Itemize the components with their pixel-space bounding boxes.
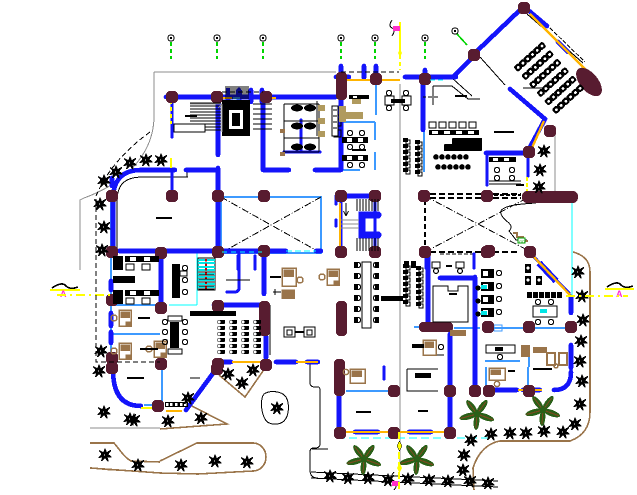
stage bar [190, 311, 236, 316]
column [523, 385, 535, 397]
column [370, 73, 382, 85]
lift core [222, 100, 250, 136]
column [444, 427, 456, 439]
grid marker [168, 35, 174, 41]
wall diag NE2 [558, 42, 568, 52]
wall x423 [421, 79, 426, 130]
column [481, 190, 493, 202]
column [166, 190, 178, 202]
column [152, 400, 164, 412]
classroom desks [429, 122, 482, 170]
column [155, 358, 167, 370]
column [482, 321, 494, 333]
wash basins [334, 108, 341, 137]
label dash wing [127, 377, 144, 379]
pier bar mid [259, 301, 270, 336]
column [418, 190, 430, 202]
column [544, 125, 556, 137]
door bar [226, 90, 231, 102]
tan desk [111, 310, 131, 326]
NE thin line [527, 14, 583, 63]
column [483, 385, 495, 397]
pier bar S [334, 359, 345, 396]
tan desk [319, 269, 339, 285]
walls S rooms [337, 396, 342, 428]
desk col E [481, 269, 502, 317]
column [212, 300, 224, 312]
wall y432 segs [355, 430, 431, 435]
shelf [403, 138, 410, 174]
orange diag NE2 [531, 121, 544, 150]
courtyard west diagonal 2 [221, 197, 321, 253]
wall y77 [336, 75, 456, 80]
desk S1 [343, 369, 365, 383]
column [469, 385, 481, 397]
walk E curve [473, 252, 590, 490]
desk SE [486, 345, 515, 353]
level marker E [566, 283, 634, 299]
column [258, 245, 270, 257]
toilet walls [284, 120, 320, 152]
partition [111, 333, 160, 335]
wall SE arc [495, 372, 571, 390]
partition wall mid2 [262, 253, 267, 294]
wall y278 [440, 276, 474, 281]
label dash [185, 115, 197, 117]
grid marker diag [452, 28, 458, 34]
column [523, 146, 535, 158]
tree row band S [311, 472, 498, 487]
door bar N [362, 66, 367, 78]
big beam E [522, 191, 578, 203]
column [481, 246, 493, 258]
wall x218 [216, 97, 221, 253]
cyan partition [196, 252, 198, 305]
orange y432 [346, 431, 449, 433]
column [166, 91, 178, 103]
tan desk [111, 343, 131, 359]
column [211, 91, 223, 103]
stub NW [110, 178, 115, 186]
walk V [219, 371, 263, 397]
tan bits E [450, 330, 466, 336]
courtyard east diagonal [425, 196, 531, 252]
room E outline [433, 286, 468, 322]
thin partition [226, 279, 250, 281]
desks N2 [342, 130, 368, 167]
wc pair [291, 123, 303, 130]
grid marker [260, 35, 266, 41]
wall x475 [473, 277, 478, 389]
section line bottom [392, 432, 403, 490]
column [335, 246, 347, 258]
cyan E [571, 203, 573, 295]
L room S [407, 369, 438, 391]
svg-text:GD: GD [519, 239, 525, 244]
courtyard west diagonal [221, 197, 321, 253]
beam E room [419, 322, 453, 332]
NE wing seats [513, 41, 584, 114]
wall x266 low [264, 336, 269, 358]
small desks E [432, 262, 464, 273]
dash E room [440, 253, 474, 255]
small dash [190, 377, 200, 379]
door bar N [374, 66, 379, 78]
column [212, 246, 224, 258]
partition N [423, 130, 425, 172]
NE wing inner lines [452, 57, 505, 96]
centre site line [399, 84, 401, 462]
cyan partition [169, 304, 197, 306]
stair block sides [341, 199, 375, 250]
tan L-desk [339, 96, 363, 122]
curved SW wall [113, 370, 141, 406]
orange diag E [532, 255, 570, 295]
column [260, 359, 272, 371]
armchairs [316, 101, 318, 136]
column [524, 246, 536, 258]
wall x263 [263, 97, 321, 170]
tan chairs SE [547, 353, 567, 368]
orange tick [222, 97, 232, 99]
column [106, 352, 118, 364]
column [565, 321, 577, 333]
yellow SW [141, 407, 157, 409]
level marker W [50, 284, 111, 299]
wall y170 mid [320, 168, 341, 173]
partition SE [346, 390, 388, 392]
column [335, 190, 347, 202]
partition [111, 304, 160, 306]
door stubs y252 [238, 256, 255, 269]
courtyard west [221, 197, 321, 253]
wall diag E fat [539, 263, 556, 281]
door bar N2 [423, 70, 428, 78]
column [518, 2, 530, 14]
lockers [284, 327, 315, 337]
dashed y72 [341, 71, 399, 73]
office desks N [385, 90, 411, 110]
door stubs courtyard E [426, 254, 474, 268]
courtyard east left dash [424, 200, 426, 248]
label dash hall [156, 217, 172, 219]
arrow dn [344, 203, 349, 216]
west wall segs [111, 215, 113, 343]
wall left stub [171, 100, 174, 192]
partition N [342, 121, 375, 123]
tan desk S2 [423, 340, 436, 355]
stair block top [337, 194, 379, 199]
long table [354, 262, 379, 328]
dash courtyard-bar [494, 194, 521, 196]
inner outline NW hall [117, 177, 188, 248]
wall y170 W [186, 168, 216, 173]
column [106, 362, 118, 374]
column [260, 91, 272, 103]
column [211, 363, 223, 375]
NE dashes [550, 28, 585, 62]
column [155, 302, 167, 314]
wall diag NW [477, 10, 520, 51]
comb row [527, 292, 562, 298]
site boundary top [154, 71, 336, 73]
column [106, 246, 118, 258]
wc pair [291, 105, 303, 112]
wc pair [291, 144, 303, 151]
grid marker [338, 35, 344, 41]
trees [98, 175, 110, 187]
outline S wing [310, 362, 320, 478]
column [388, 427, 400, 439]
site boundary NW curve [80, 72, 154, 270]
wall y251 [119, 249, 321, 254]
grid marker [422, 35, 428, 41]
yellow dash x171 [170, 100, 172, 124]
wall x450 [448, 334, 453, 428]
walk rounded SW [160, 443, 266, 474]
NE wing S walls [510, 89, 545, 149]
wall x161 [159, 253, 164, 305]
orange stair side [339, 203, 341, 250]
lb tick [233, 97, 240, 100]
orange diag NE [530, 14, 588, 72]
cyan S [337, 396, 339, 438]
gray arrows [190, 104, 222, 132]
west wall line [110, 196, 112, 365]
wall diag NE [528, 10, 547, 26]
room line [269, 305, 271, 355]
wall diag E [533, 256, 569, 293]
courtyard east bottom dash [430, 251, 520, 253]
conference table [170, 322, 179, 348]
wall x487 [486, 155, 489, 185]
big column NE [571, 63, 607, 101]
BB marks [404, 261, 416, 268]
table E [533, 306, 557, 317]
partition E [488, 327, 528, 329]
wall y305 [214, 303, 264, 308]
stair C [362, 215, 378, 235]
curvy path [501, 203, 536, 240]
shelf [403, 264, 410, 306]
orange SE [518, 389, 542, 391]
yellow dash x527 [526, 177, 528, 193]
door bar [237, 90, 242, 102]
column [419, 73, 431, 85]
wall x341 [339, 70, 344, 170]
palm 3 [525, 394, 561, 426]
hatch right of lift [253, 104, 272, 129]
column [369, 246, 381, 258]
courtyard east top dash2 [430, 197, 521, 199]
column tall N [336, 72, 347, 100]
desk NE [489, 157, 516, 162]
column [369, 190, 381, 202]
auditorium seats [217, 320, 261, 354]
comb above lift [226, 86, 248, 99]
pond [261, 392, 288, 425]
green mark [518, 238, 525, 243]
orange y362 [232, 361, 261, 363]
tan desk [146, 341, 166, 357]
column [334, 427, 346, 439]
door bar [249, 90, 254, 102]
b chairs [525, 264, 542, 285]
wall x528 [527, 156, 530, 176]
door bar N [339, 66, 344, 78]
palm 4 [459, 398, 495, 430]
partition [161, 367, 163, 401]
column [155, 247, 167, 259]
wall x428 [426, 254, 431, 322]
dashed tree boundary W [96, 132, 160, 362]
column [106, 190, 118, 202]
checkered bar [165, 402, 188, 407]
palm 2 [399, 443, 435, 475]
grid marker [372, 35, 378, 41]
pier bar mid2 [336, 301, 347, 336]
section line top [390, 20, 402, 70]
column [468, 49, 480, 61]
column [258, 190, 270, 202]
palm 1 [346, 443, 382, 475]
curved NW wall [113, 170, 175, 246]
desk strip [172, 264, 180, 298]
wall diag W [454, 58, 472, 76]
toilet stalls [284, 104, 319, 152]
stair comb N [357, 199, 378, 251]
stairs W [198, 258, 215, 290]
stub [335, 196, 338, 226]
wall y153 [486, 151, 528, 156]
column [212, 190, 224, 202]
courtyard east diagonal 2 [425, 196, 531, 252]
orange y80 [341, 79, 400, 81]
outline NE room [433, 86, 480, 105]
bench [174, 124, 205, 132]
shelf [415, 140, 422, 176]
shelf [416, 266, 423, 308]
gray line SW [90, 427, 160, 429]
door bar [260, 90, 265, 102]
column [483, 245, 495, 257]
column [388, 385, 400, 397]
gray post NE [554, 132, 556, 196]
partition wall mid [227, 254, 239, 292]
wall y362 segs [219, 360, 318, 365]
column [419, 246, 431, 258]
column [523, 321, 535, 333]
stub S [383, 367, 386, 379]
wall dots E [475, 285, 480, 316]
column [212, 358, 224, 370]
wall x571 [569, 297, 574, 368]
cyan dashes on walls [286, 250, 316, 252]
walk triangle [160, 403, 227, 429]
path steps [513, 233, 528, 241]
GN strip [332, 106, 338, 136]
wall top main [166, 95, 336, 100]
column [106, 294, 118, 306]
walk band SW [90, 443, 160, 473]
cyan dashed S [337, 437, 492, 439]
column [444, 385, 456, 397]
desk row W1 [113, 256, 159, 304]
grid marker [214, 35, 220, 41]
svg-text:A: A [616, 289, 623, 299]
stair treads [190, 103, 221, 130]
diag SW wall [186, 372, 214, 410]
tan desk mid [282, 268, 303, 298]
desk SE2 [489, 368, 505, 387]
courtyard east top dash [430, 193, 521, 195]
orange SW [166, 410, 182, 412]
